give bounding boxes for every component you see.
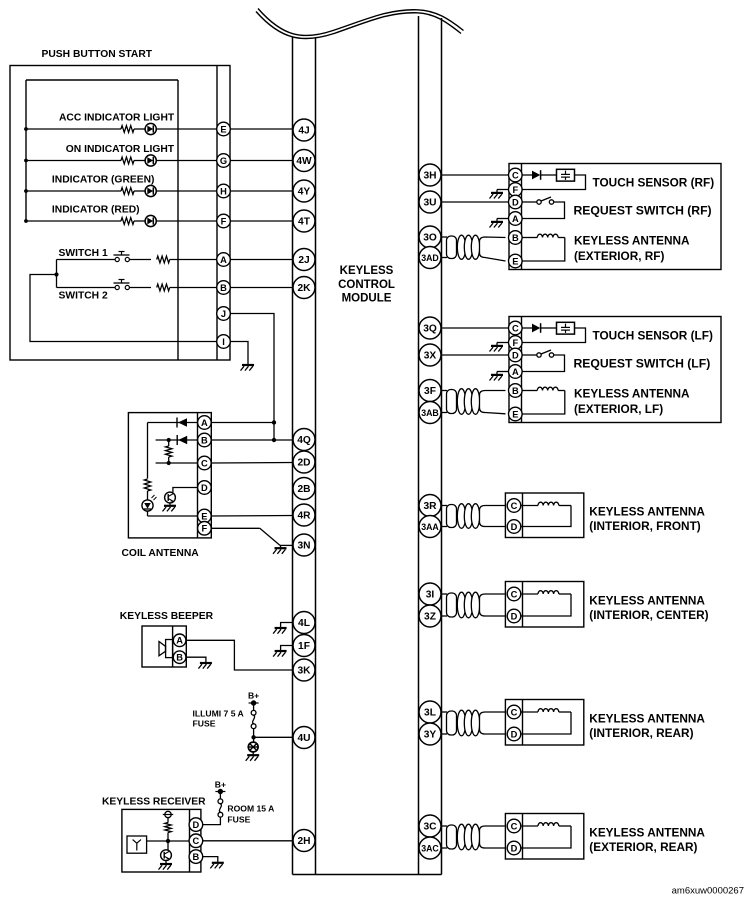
wire 3U row to D (RF)	[442, 201, 509, 203]
svg-text:(INTERIOR, FRONT): (INTERIOR, FRONT)	[589, 519, 700, 533]
antenna box (INTERIOR, CENTER)	[505, 582, 583, 628]
svg-text:4R: 4R	[297, 511, 311, 522]
keyless beeper strip	[172, 626, 174, 667]
wire B to 2K	[230, 287, 293, 289]
svg-text:3Y: 3Y	[424, 730, 437, 741]
wire A to 2J	[230, 259, 293, 261]
svg-text:KEYLESS: KEYLESS	[340, 265, 394, 277]
ground (beeper)	[200, 662, 212, 664]
indicator wire row F	[24, 219, 28, 223]
pin E (LF box)	[509, 407, 523, 421]
wire A branch down	[147, 423, 149, 479]
antenna coil ((INTERIOR, FRONT))	[521, 505, 538, 507]
twisted pair 3O/3AD (RF)	[442, 236, 448, 238]
switch row B wire	[57, 287, 116, 289]
module pin 3X	[419, 344, 441, 366]
keyless receiver box	[122, 809, 201, 872]
wire C row to 2H	[203, 840, 293, 842]
antenna coil ((EXTERIOR, REAR))	[521, 825, 538, 827]
module pin 4U	[293, 727, 315, 749]
pin B (LF box)	[509, 384, 523, 398]
svg-text:3X: 3X	[424, 351, 437, 362]
svg-text:E: E	[512, 409, 518, 419]
indicator lamp on row H	[145, 185, 156, 196]
svg-text:3O: 3O	[423, 233, 437, 244]
svg-text:3R: 3R	[423, 501, 437, 512]
antenna coil (LF)	[522, 390, 537, 392]
module pin 3Q	[419, 317, 441, 339]
ground (coil antenna)	[169, 503, 171, 505]
pin D ((INTERIOR, CENTER))	[507, 609, 521, 623]
keyless beeper box	[142, 626, 186, 667]
wire H to 4Y	[230, 190, 293, 192]
module pin 3R	[419, 495, 441, 517]
beeper pin A	[173, 634, 186, 647]
coil antenna strip	[197, 413, 199, 538]
svg-text:3F: 3F	[424, 386, 436, 397]
touch sensor box (LF)	[509, 317, 721, 423]
diode (touch sensor LF)	[522, 327, 532, 329]
module pin 4W	[293, 150, 315, 172]
indicator lamp on row F	[145, 215, 156, 226]
svg-text:B: B	[512, 386, 519, 396]
svg-text:KEYLESS ANTENNA: KEYLESS ANTENNA	[589, 505, 705, 519]
svg-text:KEYLESS ANTENNA: KEYLESS ANTENNA	[574, 233, 690, 247]
svg-text:A: A	[512, 367, 519, 377]
wire A row to node	[211, 422, 274, 424]
module pin 2K	[293, 277, 315, 299]
wire resistor to LED	[147, 491, 149, 500]
svg-text:FUSE: FUSE	[193, 719, 216, 729]
svg-text:(EXTERIOR, REAR): (EXTERIOR, REAR)	[589, 840, 697, 854]
coil antenna pin E	[198, 509, 212, 523]
svg-text:C: C	[511, 707, 518, 717]
indicator lamp on row E	[145, 123, 156, 134]
wire fuse to node	[253, 728, 255, 737]
pin E (RF box)	[509, 254, 523, 268]
wire lamp to pin H	[156, 190, 216, 192]
beeper pin B	[173, 651, 186, 664]
module pin 4T	[293, 210, 315, 232]
wire lamp to pin F	[156, 220, 216, 222]
pin G (push button start)	[217, 154, 231, 168]
antenna loop (RF)	[522, 238, 565, 262]
phototransistor Q1 (coil antenna)	[165, 492, 176, 503]
sensor element (LF)	[557, 322, 575, 334]
wire F row to 3N	[211, 527, 260, 529]
antenna box (EXTERIOR, REAR)	[505, 814, 583, 860]
ground (illumi lamp)	[247, 754, 259, 756]
wire lamp to ground	[252, 752, 254, 755]
svg-text:3L: 3L	[424, 708, 436, 719]
receiver pin D	[189, 818, 203, 832]
svg-text:F: F	[512, 185, 518, 195]
svg-text:4Q: 4Q	[297, 435, 311, 446]
diode (touch sensor RF)	[522, 174, 532, 176]
pin C (RF box)	[509, 168, 523, 182]
svg-text:2B: 2B	[297, 484, 310, 495]
twisted pair 3F/3AB (LF)	[442, 390, 448, 392]
pin E (push button start)	[217, 122, 231, 136]
svg-text:TOUCH SENSOR (RF): TOUCH SENSOR (RF)	[593, 176, 715, 190]
twisted pair (INTERIOR, REAR)	[442, 711, 448, 713]
push button start outer box	[10, 66, 230, 361]
svg-text:3N: 3N	[297, 541, 310, 552]
ground (receiver B)	[212, 862, 224, 864]
module pin 1F	[293, 635, 315, 657]
module pin 2B	[293, 478, 315, 500]
request switch (RF)	[522, 201, 537, 203]
wire I to ground	[230, 342, 248, 365]
pin D (RF box)	[509, 195, 523, 209]
connector strip (LF)	[521, 317, 523, 423]
svg-text:D: D	[193, 820, 200, 830]
receiver input terminal	[165, 811, 171, 817]
svg-text:3K: 3K	[297, 666, 311, 677]
wire 3H row to C (RF)	[442, 174, 509, 176]
module pin 3AB	[419, 402, 441, 424]
svg-text:FUSE: FUSE	[227, 814, 250, 824]
push switch SWITCH 1	[115, 257, 119, 261]
svg-text:3AC: 3AC	[421, 844, 439, 854]
switch row A wire	[57, 259, 116, 261]
wire F ground (RF)	[497, 189, 509, 191]
push button start connector strip	[216, 66, 218, 361]
svg-text:C: C	[511, 821, 518, 831]
svg-text:F: F	[202, 524, 208, 534]
pin D ((INTERIOR, REAR))	[507, 727, 521, 741]
wire A ground (RF)	[497, 218, 509, 220]
module pin 2H	[293, 830, 315, 852]
pin B (push button start)	[217, 281, 231, 295]
keyless receiver strip	[189, 809, 191, 872]
svg-text:3I: 3I	[426, 590, 435, 601]
pin H (push button start)	[217, 184, 231, 198]
antenna coil ((INTERIOR, REAR))	[521, 711, 538, 713]
wire C row to 2D	[211, 462, 293, 465]
resistor (coil antenna left)	[144, 479, 150, 491]
LED (coil antenna)	[142, 500, 153, 511]
twisted pair (EXTERIOR, REAR)	[442, 825, 448, 827]
B+ terminal (room)	[218, 789, 223, 794]
ground (3N)	[280, 545, 282, 547]
svg-text:INDICATOR (GREEN): INDICATOR (GREEN)	[52, 175, 155, 186]
wire node to 4U	[254, 736, 293, 738]
coil antenna pin F	[198, 522, 212, 536]
ground (1F)	[275, 650, 287, 652]
module pin 4R	[293, 504, 315, 526]
module pin 3F	[419, 380, 441, 402]
coil antenna pin C	[198, 456, 212, 470]
module pin 3AC	[419, 837, 441, 859]
svg-text:F: F	[512, 338, 518, 348]
coil antenna wire B stub	[156, 439, 198, 441]
wire LED to E row	[147, 511, 149, 516]
pin F (RF box)	[509, 183, 523, 197]
module pin 3I	[419, 583, 441, 605]
module pin 3AD	[419, 247, 441, 269]
svg-text:MODULE: MODULE	[342, 293, 392, 305]
wire F ground (LF)	[497, 342, 509, 344]
wire to C row	[168, 457, 170, 463]
diode D1 (coil antenna, A row)	[178, 418, 187, 427]
pin D (LF box)	[509, 348, 523, 362]
keyless control module left rail	[292, 37, 294, 875]
pin C ((EXTERIOR, REAR))	[507, 819, 521, 833]
svg-text:D: D	[511, 611, 518, 621]
svg-text:B: B	[176, 653, 183, 663]
indicator wire row E	[24, 127, 28, 131]
resistor (coil antenna mid)	[166, 446, 172, 457]
wire node down	[167, 841, 169, 850]
svg-text:B: B	[193, 852, 200, 862]
pin A (RF box)	[509, 212, 523, 226]
wire E to 4J	[230, 128, 293, 130]
antenna loop ((INTERIOR, FRONT))	[521, 506, 571, 527]
module pin 4Q	[293, 429, 315, 451]
wire 3U row to D (LF)	[442, 354, 509, 356]
svg-text:C: C	[201, 458, 208, 468]
receiver pin C	[189, 834, 203, 848]
wire B row to ground	[203, 857, 218, 863]
wire F to 4T	[230, 220, 293, 222]
svg-text:2K: 2K	[297, 283, 311, 294]
touch sensor box (RF)	[509, 164, 721, 270]
pin B (RF box)	[509, 231, 523, 245]
svg-text:C: C	[511, 589, 518, 599]
wire A ground (LF)	[497, 371, 509, 373]
ground (touch sensor LF)	[491, 345, 503, 347]
antenna strip (INTERIOR, CENTER)	[522, 582, 524, 628]
module pin 3Y	[419, 723, 441, 745]
svg-text:E: E	[201, 511, 207, 521]
svg-text:D: D	[512, 350, 519, 360]
antenna loop ((INTERIOR, CENTER))	[521, 594, 571, 616]
svg-text:(EXTERIOR, LF): (EXTERIOR, LF)	[574, 402, 663, 416]
coil antenna pin A	[198, 416, 212, 430]
svg-text:am6xuw0000267: am6xuw0000267	[672, 885, 744, 896]
svg-text:3AB: 3AB	[421, 408, 439, 418]
inner partition box	[26, 79, 178, 81]
wire G to 4W	[230, 160, 293, 162]
svg-text:3U: 3U	[423, 198, 436, 209]
svg-text:4Y: 4Y	[298, 187, 311, 198]
svg-text:SWITCH 2: SWITCH 2	[59, 290, 108, 301]
svg-text:3C: 3C	[423, 822, 437, 833]
wire E row to 4R	[211, 515, 293, 518]
svg-text:I: I	[222, 337, 225, 347]
svg-text:2D: 2D	[297, 458, 310, 469]
indicator wire row H	[24, 189, 28, 193]
receiver pin B	[189, 850, 203, 864]
svg-text:G: G	[220, 156, 227, 166]
touch sensor loop (LF)	[522, 328, 585, 343]
ground (push button start)	[242, 364, 254, 366]
twisted pair (INTERIOR, CENTER)	[442, 593, 448, 595]
svg-text:4U: 4U	[297, 733, 310, 744]
antenna strip (INTERIOR, FRONT)	[522, 493, 524, 538]
svg-text:4W: 4W	[296, 156, 312, 167]
svg-text:PUSH BUTTON START: PUSH BUTTON START	[42, 49, 153, 60]
svg-text:B: B	[512, 233, 519, 243]
wire 1F ground	[281, 646, 293, 651]
svg-text:A: A	[176, 636, 183, 646]
pin D ((EXTERIOR, REAR))	[507, 841, 521, 855]
svg-text:KEYLESS ANTENNA: KEYLESS ANTENNA	[589, 594, 705, 608]
pin A (push button start)	[217, 253, 231, 267]
module pin 3C	[419, 815, 441, 837]
module pin 3O	[419, 226, 441, 248]
svg-text:B: B	[220, 283, 227, 293]
svg-text:4J: 4J	[298, 126, 309, 137]
module pin 3H	[419, 164, 441, 186]
ground (request switch LF)	[491, 374, 503, 376]
coil antenna pin B	[198, 433, 212, 447]
ground (4L)	[275, 627, 287, 629]
svg-text:KEYLESS ANTENNA: KEYLESS ANTENNA	[589, 826, 705, 840]
antenna loop (LF)	[522, 391, 565, 415]
twisted pair (INTERIOR, FRONT)	[442, 505, 448, 507]
pin C ((INTERIOR, FRONT))	[507, 499, 521, 513]
switch A resistor wire	[129, 259, 151, 261]
svg-text:3H: 3H	[423, 171, 436, 182]
wire B row to 4Q	[211, 439, 293, 441]
module pin 3L	[419, 701, 441, 723]
svg-text:KEYLESS BEEPER: KEYLESS BEEPER	[120, 611, 214, 622]
svg-text:A: A	[201, 418, 208, 428]
touch sensor loop (RF)	[522, 175, 585, 190]
ground (receiver transistor)	[165, 861, 167, 864]
module bottom edge	[293, 874, 442, 876]
coil antenna pin D	[198, 481, 212, 495]
resistor (receiver)	[165, 823, 171, 833]
module pin 3U	[419, 191, 441, 213]
pin J (push button start)	[217, 307, 231, 321]
switch B resistor wire	[129, 287, 151, 289]
svg-text:B+: B+	[248, 690, 259, 700]
svg-text:D: D	[511, 522, 518, 532]
coil antenna wire C stub	[156, 462, 198, 464]
module pin 4Y	[293, 180, 315, 202]
svg-text:3Q: 3Q	[423, 324, 437, 335]
indicator lamp on row G	[145, 155, 156, 166]
svg-text:ACC INDICATOR LIGHT: ACC INDICATOR LIGHT	[59, 113, 175, 124]
svg-text:J: J	[221, 309, 226, 319]
module pin 3N	[293, 534, 315, 556]
svg-text:SWITCH 1: SWITCH 1	[59, 248, 108, 259]
svg-text:(EXTERIOR, RF): (EXTERIOR, RF)	[574, 249, 665, 263]
wire resistor to node	[167, 833, 169, 842]
switch common vertical	[56, 260, 58, 288]
module pin 4J	[293, 119, 315, 141]
speaker symbol	[159, 642, 166, 656]
wire lamp to pin E	[156, 128, 216, 130]
svg-text:4T: 4T	[298, 217, 311, 228]
svg-text:A: A	[220, 255, 227, 265]
module pin 3Z	[419, 605, 441, 627]
module pin 4L	[293, 612, 315, 634]
antenna box (INTERIOR, FRONT)	[505, 493, 583, 538]
harness bundle (wavy double line)	[258, 9, 464, 36]
svg-text:3AD: 3AD	[421, 253, 439, 263]
wire node down to lamp	[253, 737, 255, 742]
coil antenna wire A left	[148, 422, 198, 424]
switch common feed wire	[30, 275, 217, 342]
coil antenna box	[128, 413, 211, 538]
svg-text:KEYLESS ANTENNA: KEYLESS ANTENNA	[574, 386, 690, 400]
request switch loop (LF)	[522, 355, 564, 372]
module pin 2J	[293, 249, 315, 271]
module pin 3AA	[419, 516, 441, 538]
svg-text:(INTERIOR, CENTER): (INTERIOR, CENTER)	[589, 608, 708, 622]
diode D2 (coil antenna, B row)	[178, 436, 187, 445]
svg-text:C: C	[512, 170, 519, 180]
node vertical A-B	[273, 423, 275, 441]
wire beeper B to ground	[186, 657, 206, 662]
ground (touch sensor RF)	[491, 192, 503, 194]
svg-text:F: F	[221, 216, 227, 226]
module pin 2D	[293, 451, 315, 473]
pin F (push button start)	[217, 214, 231, 228]
phototransistor Q2 (receiver)	[161, 850, 172, 861]
svg-text:ILLUMI 7 5 A: ILLUMI 7 5 A	[193, 709, 244, 719]
svg-text:2H: 2H	[297, 836, 310, 847]
svg-text:1F: 1F	[298, 641, 310, 652]
svg-text:COIL ANTENNA: COIL ANTENNA	[122, 548, 200, 559]
illumination lamp	[248, 742, 258, 752]
receiver antenna box	[127, 836, 147, 853]
svg-text:ROOM 15 A: ROOM 15 A	[227, 804, 274, 814]
pin A (LF box)	[509, 365, 523, 379]
svg-text:H: H	[220, 186, 227, 196]
wire 3H row to C (LF)	[442, 327, 509, 329]
svg-text:E: E	[220, 124, 226, 134]
svg-text:D: D	[511, 843, 518, 853]
antenna coil ((INTERIOR, CENTER))	[521, 593, 538, 595]
sensor element (RF)	[557, 169, 575, 181]
request switch loop (RF)	[522, 202, 564, 219]
wire beeper A to 3K	[186, 640, 293, 670]
svg-text:2J: 2J	[298, 255, 309, 266]
svg-text:4L: 4L	[298, 618, 310, 629]
pin C ((INTERIOR, CENTER))	[507, 587, 521, 601]
pin C ((INTERIOR, REAR))	[507, 705, 521, 719]
wire lamp to pin G	[156, 160, 216, 162]
svg-text:A: A	[512, 214, 519, 224]
pin D ((INTERIOR, FRONT))	[507, 520, 521, 534]
svg-text:KEYLESS ANTENNA: KEYLESS ANTENNA	[589, 712, 705, 726]
svg-text:B+: B+	[215, 779, 226, 789]
svg-text:C: C	[512, 323, 519, 333]
svg-text:REQUEST SWITCH (LF): REQUEST SWITCH (LF)	[574, 357, 711, 371]
svg-text:B: B	[201, 435, 208, 445]
antenna box (INTERIOR, REAR)	[505, 700, 583, 746]
wire 4L ground	[281, 623, 293, 628]
svg-text:TOUCH SENSOR (LF): TOUCH SENSOR (LF)	[593, 329, 713, 343]
node B-C junction	[167, 438, 171, 442]
pin C (LF box)	[509, 321, 523, 335]
request switch (LF)	[522, 354, 537, 356]
svg-text:D: D	[201, 483, 208, 493]
svg-text:(INTERIOR, REAR): (INTERIOR, REAR)	[589, 726, 693, 740]
antenna loop ((EXTERIOR, REAR))	[521, 826, 571, 848]
svg-text:REQUEST SWITCH (RF): REQUEST SWITCH (RF)	[574, 204, 712, 218]
B+ terminal (illumi)	[251, 700, 256, 705]
pin F (LF box)	[509, 336, 523, 350]
svg-text:D: D	[511, 729, 518, 739]
ground (request switch RF)	[491, 221, 503, 223]
svg-text:C: C	[193, 836, 200, 846]
